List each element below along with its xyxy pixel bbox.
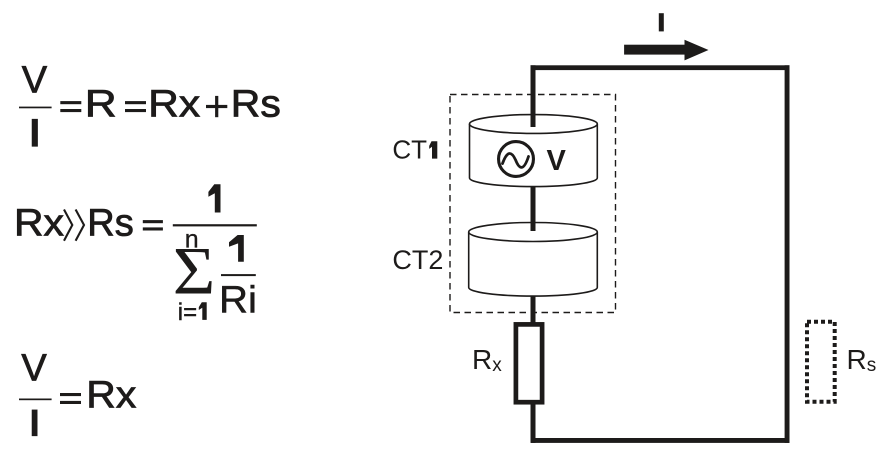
wire right vertical	[785, 65, 790, 443]
svg-text:Rx: Rx	[472, 344, 502, 376]
svg-text:R: R	[85, 83, 117, 125]
equation 2 numerator 1	[208, 184, 220, 212]
equation 3 fraction V over I	[19, 348, 52, 445]
wire bottom horizontal	[531, 438, 790, 443]
svg-text:i=: i=	[178, 299, 197, 326]
svg-text:Σ: Σ	[173, 234, 216, 309]
wire left segment CT1 to CT2	[531, 186, 536, 231]
svg-text:Rs: Rs	[231, 83, 281, 125]
equation 1 equals sign 1	[60, 101, 81, 112]
equation 1 fraction V over I	[19, 59, 52, 155]
svg-text:CT: CT	[392, 135, 427, 165]
equation 1 plus sign	[206, 96, 227, 117]
equation 1 equals sign 2	[125, 101, 146, 112]
resistor Rx	[516, 324, 542, 402]
svg-text:I: I	[29, 112, 40, 156]
svg-text:V: V	[547, 145, 567, 177]
svg-text:CT2: CT2	[392, 245, 443, 275]
equation 2 inner fraction bar	[221, 274, 256, 276]
transformer CT1 cylinder	[470, 115, 598, 187]
svg-text:Rs: Rs	[87, 202, 133, 244]
equation 2 equals sign	[143, 220, 163, 230]
current direction arrow	[624, 40, 708, 61]
svg-text:V: V	[22, 59, 48, 101]
current arrow label I	[659, 13, 664, 31]
wire left segment top (top wire to CT1)	[531, 65, 536, 127]
equation 3 equals sign	[60, 393, 81, 404]
wire left segment Rx to bottom wire	[531, 404, 536, 443]
svg-text:Rx: Rx	[86, 375, 136, 417]
svg-text:Ri: Ri	[219, 280, 257, 322]
svg-text:V: V	[21, 348, 47, 390]
wire top horizontal	[531, 65, 790, 70]
dashed enclosure box around CT1 and CT2	[450, 95, 616, 313]
AC source V inside CT1	[499, 142, 534, 177]
svg-text:Rx: Rx	[14, 202, 64, 244]
equation 2 summation sigma	[173, 234, 216, 309]
equation 2 much-greater-than brackets	[64, 210, 84, 241]
svg-text:Rs: Rs	[847, 344, 877, 376]
svg-text:I: I	[29, 403, 40, 445]
transformer CT2 cylinder	[469, 223, 598, 297]
resistor Rs dotted outline	[807, 322, 835, 402]
wire left segment CT2 to Rx	[531, 296, 536, 324]
equation 2 inner numerator 1	[229, 235, 244, 262]
equation 2 main fraction bar	[173, 224, 257, 226]
svg-text:Rx: Rx	[148, 83, 200, 125]
